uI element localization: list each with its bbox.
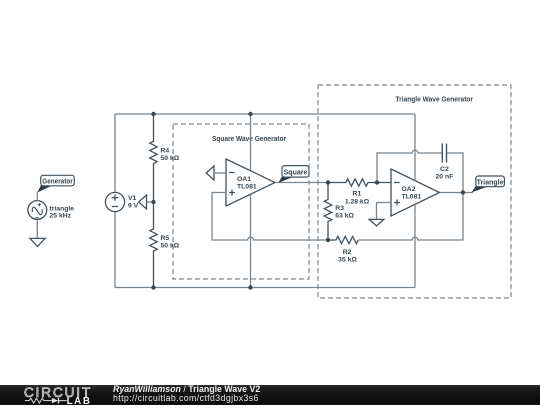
node Square output / R1 / R3 [326, 180, 330, 184]
node bottom rail / R5 [151, 285, 155, 289]
resistor R2 [328, 236, 358, 263]
wire OA2 V- [414, 205, 416, 288]
flag Generator [37, 175, 74, 192]
svg-text:R1: R1 [353, 190, 362, 197]
node top rail / OA1 V+ [248, 112, 252, 116]
node bottom rail / OA1 V- [248, 285, 252, 289]
node R3 / R2 / OA1 feedback [326, 238, 330, 242]
svg-text:Triangle Wave Generator: Triangle Wave Generator [396, 97, 474, 104]
svg-text:OA1: OA1 [237, 176, 251, 183]
dashed box Triangle Wave Generator [318, 85, 511, 298]
svg-text:R2: R2 [343, 249, 352, 256]
svg-text:OA2: OA2 [402, 186, 416, 193]
node R1 / C2 feedback tap [375, 180, 379, 184]
wire generator top [36, 192, 38, 201]
op-amp OA1 [226, 159, 275, 206]
node top rail / R4 [151, 112, 155, 116]
ground (OA2 non-inverting input) [369, 219, 384, 226]
svg-text:50 kΩ: 50 kΩ [161, 155, 180, 162]
wire OA2 + input [377, 203, 392, 220]
wire V1 top [114, 114, 116, 192]
wire OA2 output [440, 192, 474, 194]
svg-text:1.28 kΩ: 1.28 kΩ [345, 198, 370, 205]
wire C2 feedback with hop [377, 150, 442, 182]
svg-text:R3: R3 [335, 205, 344, 212]
svg-text:35 kΩ: 35 kΩ [338, 257, 357, 264]
flag Square [278, 166, 309, 183]
net arrow at R4/R5 divider node [139, 195, 154, 209]
svg-text:50 kΩ: 50 kΩ [161, 243, 180, 250]
svg-text:20 nF: 20 nF [436, 174, 454, 181]
svg-text:25 kHz: 25 kHz [50, 212, 72, 219]
ground (generator) [30, 238, 45, 246]
resistor R1 [328, 179, 391, 206]
generator source VG [28, 201, 74, 220]
op-amp OA2 [391, 169, 440, 216]
dashed box Square Wave Generator [173, 124, 309, 279]
svg-text:R4: R4 [161, 148, 170, 155]
wire bottom rail [115, 287, 415, 289]
wire OA1 + feedback with hop [212, 193, 328, 241]
wire C2 to output node [447, 153, 464, 193]
wire top rail [115, 113, 415, 115]
capacitor C2 [436, 144, 454, 181]
wire generator bottom [36, 219, 38, 238]
svg-text:9 V: 9 V [128, 203, 139, 210]
credits text [113, 385, 260, 403]
svg-text:C2: C2 [440, 166, 449, 173]
net arrow at OA1 inverting input [206, 166, 226, 180]
wire OA1 V+ [250, 114, 252, 171]
svg-text:Square Wave Generator: Square Wave Generator [212, 136, 286, 143]
wire V1 bottom [114, 212, 116, 288]
svg-text:LAB: LAB [67, 395, 92, 405]
svg-text:63 kΩ: 63 kΩ [335, 213, 354, 220]
resistor R5 [150, 202, 180, 288]
svg-text:TL081: TL081 [237, 184, 257, 191]
flag Triangle [472, 176, 505, 192]
svg-text:Generator: Generator [42, 178, 73, 185]
svg-text:Triangle: Triangle [477, 179, 504, 186]
svg-text:TL081: TL081 [402, 194, 422, 201]
wire OA2 V+ [414, 114, 416, 181]
node Triangle output / C2 / R2 return [461, 190, 465, 194]
voltage source V1 [105, 192, 138, 211]
resistor R4 [150, 114, 180, 202]
svg-text:triangle: triangle [50, 205, 75, 212]
footer bar [0, 385, 540, 406]
CircuitLab logo [24, 385, 114, 406]
svg-text:Square: Square [284, 169, 308, 176]
wire R2 return with hop [358, 193, 463, 241]
node R4/R5 divider [151, 200, 155, 204]
wire OA1 V- [250, 194, 252, 287]
svg-text:V1: V1 [128, 195, 137, 202]
resistor R3 [324, 183, 354, 241]
svg-text:R5: R5 [161, 235, 170, 242]
wire square output [275, 182, 328, 184]
